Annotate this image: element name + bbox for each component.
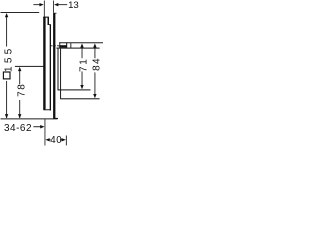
arrow 84 bottom <box>93 94 96 98</box>
handle top edge <box>43 17 49 18</box>
port cap right wall <box>66 42 67 48</box>
arrow 13 right tail <box>58 3 67 6</box>
arrow 40 left head <box>45 138 49 141</box>
arrow 40 left tail <box>49 138 50 141</box>
arrow 71 top <box>80 43 83 47</box>
svg-text:155: 155 <box>3 46 14 72</box>
arrow 34-62 head <box>40 125 44 128</box>
arrow 13 left head <box>39 3 43 6</box>
arrow 13 left tail <box>33 3 39 6</box>
extension line handle axis (for 78) <box>15 65 44 68</box>
svg-text:34-62: 34-62 <box>4 123 32 134</box>
arrow 155 top <box>5 13 8 17</box>
arrow 40 right head <box>62 138 66 141</box>
plate bottom foot <box>55 117 58 120</box>
svg-text:78: 78 <box>16 83 27 97</box>
svg-text:40: 40 <box>50 135 62 146</box>
body sleeve back line <box>59 49 62 99</box>
arrow 13 right head <box>54 3 58 6</box>
arrow 71 bottom <box>80 85 83 89</box>
body top shoulder line <box>56 48 99 49</box>
arrow 78 bottom <box>18 114 21 118</box>
bottom extension line (plate bottom edge level) <box>1 117 58 120</box>
extension line right (for 40) <box>65 136 68 146</box>
arrow 78 top <box>18 67 21 71</box>
handle top step wall <box>48 17 50 25</box>
connector vertical at cap right <box>69 43 72 48</box>
arrow 84 top <box>93 43 96 47</box>
dashed port axis line <box>51 45 60 47</box>
plate top tick <box>55 12 56 15</box>
extension line plate front up (for 13) <box>52 1 55 13</box>
port cap left wall <box>58 42 61 48</box>
arrow 40 right tail <box>60 138 62 141</box>
port cap dark seal bar <box>59 45 66 47</box>
extension line handle front down (for 34-62 and 40) <box>44 119 47 145</box>
dimension line 78 (shaft, gap for label) <box>18 70 21 84</box>
body bottom line shallow (for 71) <box>58 89 91 90</box>
arrow 155 bottom <box>5 114 8 118</box>
arrow 34-62 tail <box>33 125 40 128</box>
handle front face (thick) <box>43 17 45 110</box>
handle back line <box>50 25 51 111</box>
svg-text:71: 71 <box>78 57 89 72</box>
svg-text:13: 13 <box>68 0 79 11</box>
port cap top edge + extension line right <box>59 41 103 44</box>
plate side view (thick) <box>53 13 55 119</box>
handle step horizontal <box>49 23 51 26</box>
top extension line (plate top edge level) <box>1 11 40 14</box>
body sleeve front line <box>58 49 59 90</box>
dimension line 71 (shaft, gap for label) <box>81 47 84 58</box>
dimension line 84 (shaft, gap for label) <box>94 47 97 58</box>
svg-text:84: 84 <box>92 57 103 71</box>
dimension line 155 (vertical shaft, gap for label) <box>5 16 8 46</box>
body bottom line deep (for 84) <box>60 98 100 99</box>
extension line handle front up (for 13) <box>43 1 46 17</box>
handle bottom edge <box>43 108 51 111</box>
label 155 square symbol <box>3 72 10 79</box>
